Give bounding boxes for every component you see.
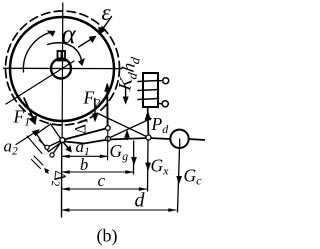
svg-text:d: d — [135, 190, 146, 212]
ball circle — [170, 130, 188, 148]
horizontal centerline — [4, 67, 123, 69]
dimension baseline — [61, 143, 63, 218]
coil line 1 — [138, 81, 159, 82]
Gg force line and extension — [133, 141, 135, 174]
terminal top — [159, 80, 163, 82]
Pd up arrow on rod — [145, 112, 151, 121]
coil line 3 — [138, 99, 159, 100]
extension line upper hinges — [107, 130, 109, 160]
svg-text:c: c — [98, 171, 106, 190]
rotation direction arc — [23, 31, 54, 72]
dimension d — [62, 209, 176, 211]
keyway on hub — [58, 51, 66, 61]
Kd hd force arrow — [125, 88, 127, 102]
tick from hinge A — [39, 140, 47, 147]
Pd hinge circle — [146, 135, 151, 140]
epsilon arrow — [100, 17, 112, 33]
coil line 2 — [138, 90, 159, 91]
center diagonal line — [6, 61, 74, 104]
svg-text:b: b — [80, 155, 88, 174]
J down-right arrow — [64, 143, 71, 151]
hinge A — [45, 145, 49, 149]
a2 leader arrow — [16, 131, 37, 145]
wheel dashed circle (unworn outline) — [6, 11, 120, 125]
lever line mid — [108, 138, 170, 140]
a2 dimension tick — [27, 136, 42, 154]
link B to J — [52, 140, 62, 155]
F2 down arrow — [94, 99, 96, 120]
delta2 leader arrow — [46, 170, 49, 173]
delta2 ticks — [34, 156, 43, 165]
small up arrow under crossing — [126, 132, 128, 140]
svg-text:(b): (b) — [97, 226, 118, 247]
alpha arc — [48, 43, 83, 64]
dimension b — [62, 171, 133, 173]
lever line right — [189, 139, 205, 140]
F2 up arrow — [106, 85, 108, 127]
vertical centerline — [61, 3, 64, 142]
solenoid rod — [147, 107, 150, 135]
lower-left slider box — [37, 124, 63, 152]
link J to upper hinge — [62, 128, 107, 140]
rim outward arrow — [79, 37, 95, 47]
link L2 — [98, 114, 149, 138]
link L1 — [108, 119, 151, 139]
wheel solid circle — [10, 17, 114, 121]
solenoid body — [143, 73, 158, 107]
ball radius line — [179, 139, 181, 148]
svg-text:α: α — [62, 19, 77, 49]
hinge B — [50, 153, 54, 157]
link A to J — [47, 140, 62, 147]
dimension a1 — [62, 155, 108, 157]
Gc force line and extension — [178, 148, 180, 212]
upper hinge circle — [105, 126, 110, 131]
lever line left — [65, 140, 108, 144]
hub circle — [51, 59, 71, 79]
svg-text:ε: ε — [102, 0, 112, 25]
J hinge circle — [60, 138, 65, 143]
F1 arrow — [24, 98, 34, 119]
lower hinge circle — [106, 136, 111, 141]
keyway mid line — [60, 51, 62, 61]
terminal bottom — [159, 103, 163, 105]
dimension c — [62, 188, 147, 190]
Gx force line and extension — [147, 140, 150, 191]
